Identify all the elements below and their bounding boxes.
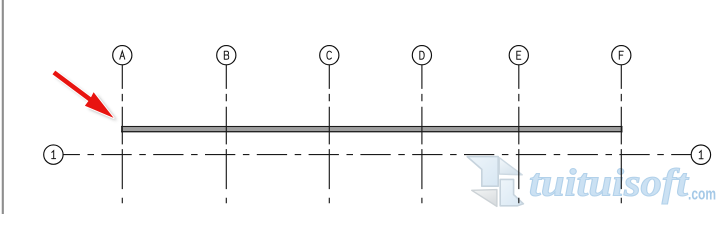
svg-text:tuituisoft: tuituisoft xyxy=(529,162,689,205)
svg-text:.com: .com xyxy=(688,186,716,204)
